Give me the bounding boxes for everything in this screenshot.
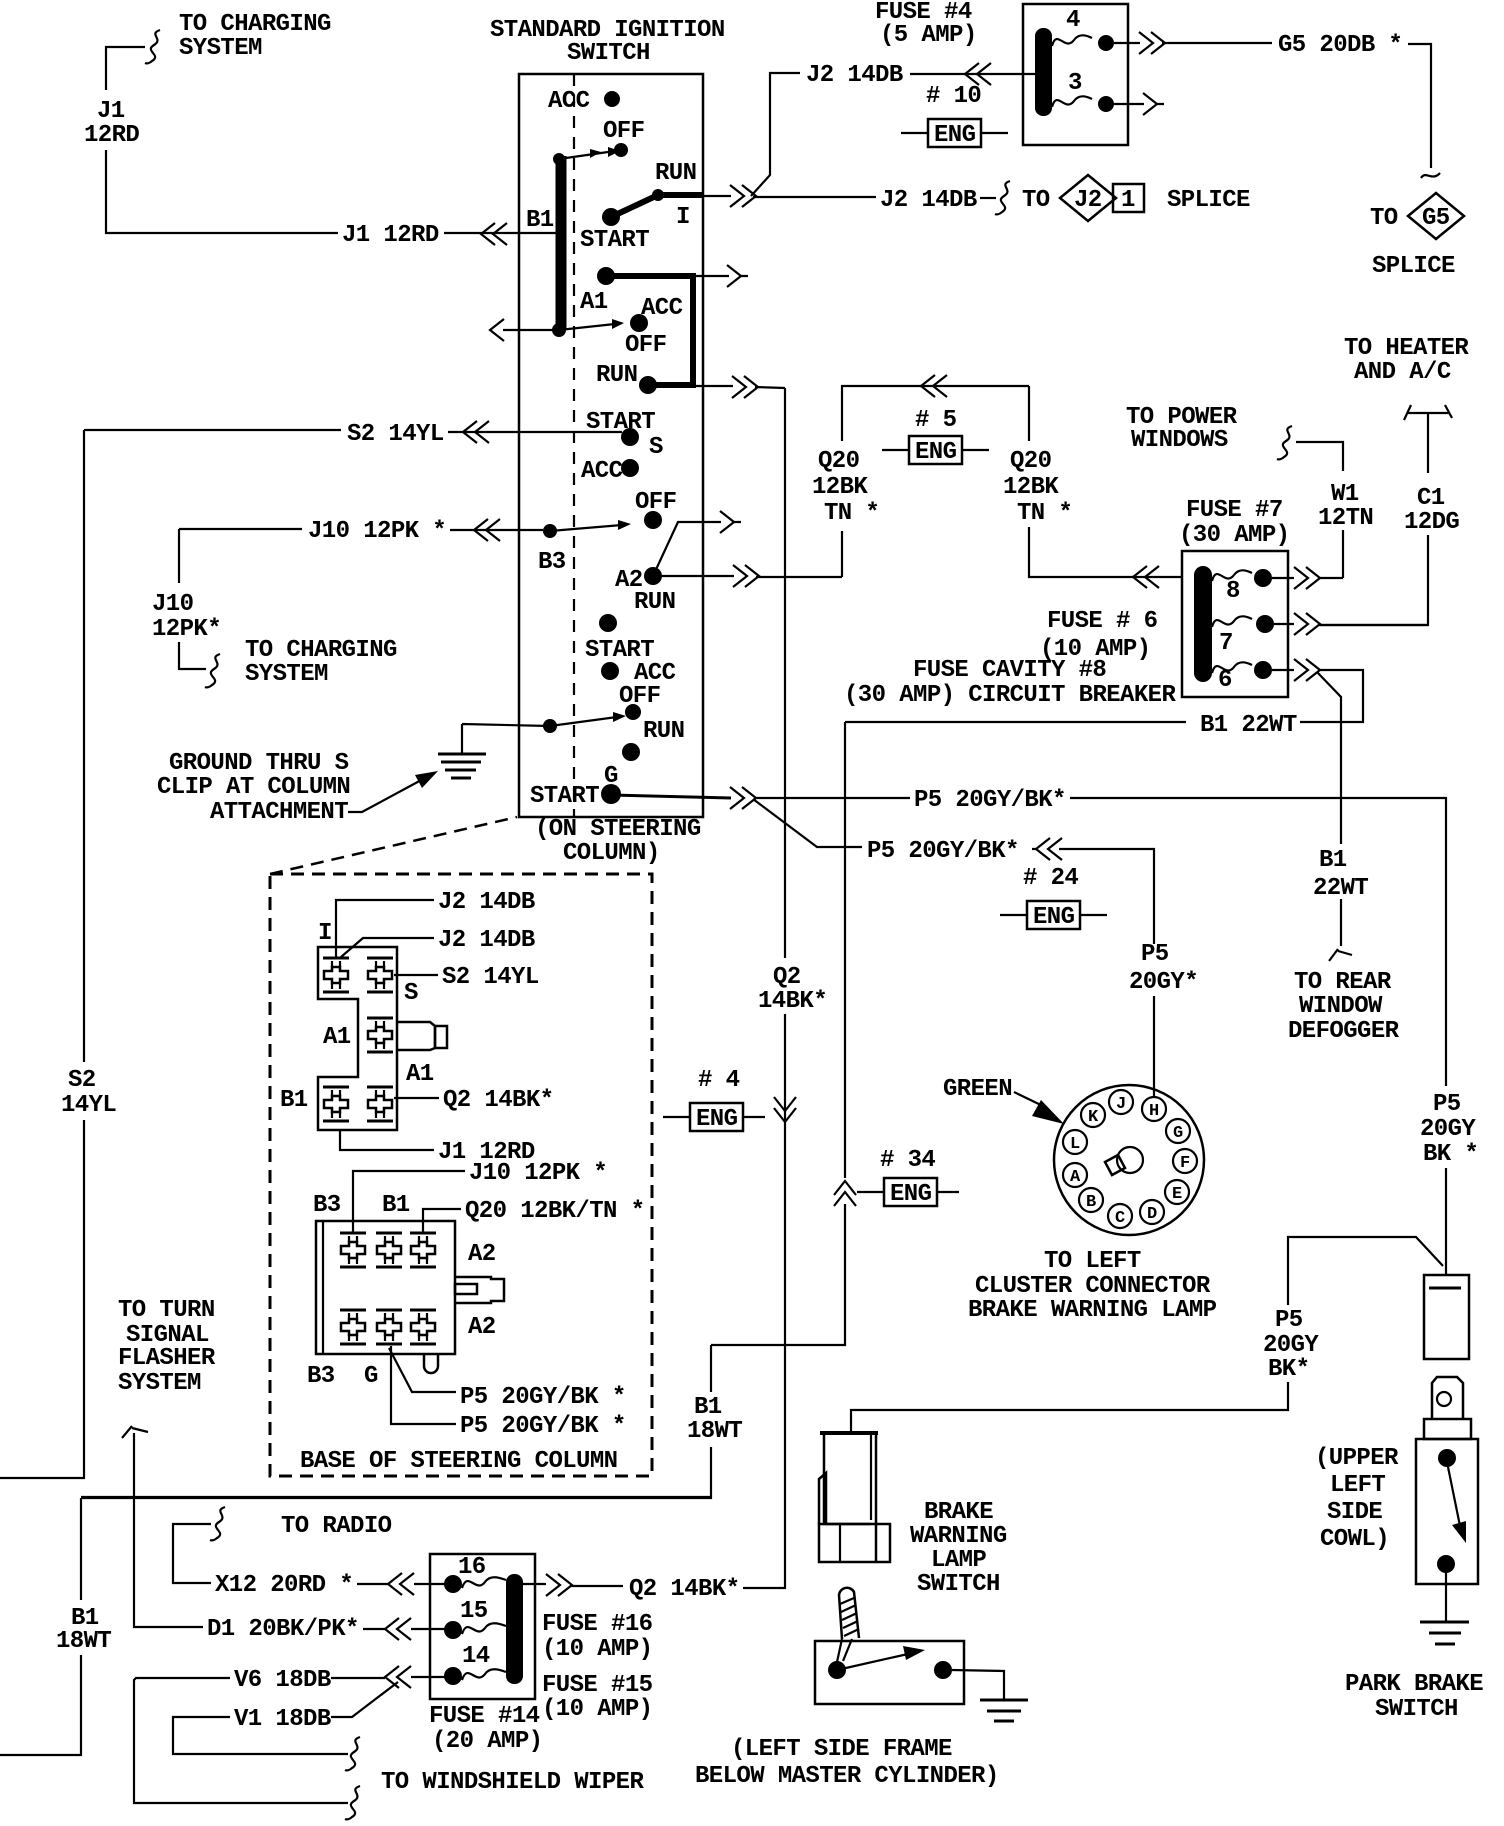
break symbol on B1 wire (834, 1181, 856, 1195)
svg-text:A2: A2 (468, 1314, 496, 1341)
svg-text:G: G (364, 1363, 378, 1390)
svg-text:SYSTEM: SYSTEM (245, 661, 328, 688)
svg-text:J10 12PK *: J10 12PK * (308, 518, 446, 545)
fuse block #14 (fuses 16,15,14) (430, 1554, 535, 1699)
connector side tab (lower) (455, 1277, 504, 1303)
pin B (1079, 1188, 1103, 1212)
brake warning lamp switch body (815, 1641, 964, 1704)
wire Q2 14BK* pigtail (394, 1097, 439, 1099)
svg-text:RUN: RUN (655, 160, 696, 187)
svg-text:Q2 14BK*: Q2 14BK* (443, 1087, 553, 1114)
break symbol defogger (1329, 949, 1352, 961)
wire C1 12DG (1320, 413, 1428, 625)
svg-text:START: START (530, 783, 599, 810)
svg-text:AND A/C: AND A/C (1354, 359, 1451, 386)
svg-text:(30 AMP) CIRCUIT BREAKER: (30 AMP) CIRCUIT BREAKER (844, 682, 1176, 709)
wire J10 12PK* pigtail (353, 1171, 465, 1233)
bus bar B1 (556, 156, 567, 329)
svg-text:(LEFT SIDE FRAME: (LEFT SIDE FRAME (731, 1736, 952, 1763)
svg-text:20GY: 20GY (1263, 1332, 1319, 1359)
svg-text:3: 3 (1068, 70, 1082, 97)
pin A1 (lower) (367, 1087, 393, 1121)
node A1 contact (597, 267, 615, 285)
svg-text:# 5: # 5 (915, 407, 957, 434)
svg-text:12PK*: 12PK* (152, 616, 221, 643)
svg-text:D: D (1147, 1205, 1157, 1224)
svg-text:BASE OF STEERING COLUMN: BASE OF STEERING COLUMN (300, 1448, 617, 1475)
svg-text:Q2: Q2 (773, 964, 801, 991)
svg-text:TO TURN: TO TURN (118, 1297, 215, 1324)
pin A1 (middle) (367, 1018, 393, 1052)
wire Q20 12BK/TN* loop (842, 386, 1182, 577)
svg-text:CLUSTER CONNECTOR: CLUSTER CONNECTOR (975, 1273, 1211, 1300)
park brake switch plug (1432, 1377, 1463, 1419)
wire Q20 12BK/TN* pigtail (423, 1209, 461, 1233)
svg-text:TN *: TN * (824, 500, 879, 527)
svg-text:J2: J2 (1074, 187, 1102, 214)
svg-text:B1: B1 (694, 1394, 722, 1421)
wire J1 12RD pigtail (340, 1131, 434, 1150)
ground (park brake) (1420, 1622, 1469, 1644)
svg-text:GREEN: GREEN (943, 1076, 1012, 1103)
wire ACC output left (single chevron) (503, 329, 556, 331)
svg-text:F: F (1180, 1154, 1190, 1173)
standard ignition switch box (519, 74, 703, 817)
svg-text:START: START (580, 227, 649, 254)
svg-text:W1: W1 (1331, 481, 1359, 508)
svg-text:J10: J10 (152, 591, 194, 618)
svg-text:SPLICE: SPLICE (1372, 253, 1455, 280)
wire P5 20GY/BK* pigtail 2 (391, 1346, 456, 1424)
svg-text:FUSE #7: FUSE #7 (1186, 497, 1283, 524)
svg-text:BK*: BK* (1268, 1356, 1309, 1383)
svg-text:H: H (1149, 1102, 1159, 1121)
park brake switch body (1416, 1439, 1478, 1584)
svg-text:(UPPER: (UPPER (1315, 1445, 1399, 1472)
wire Q2 14BK* output (657, 386, 785, 388)
pin B1 (323, 1087, 349, 1121)
svg-text:J1 12RD: J1 12RD (342, 222, 439, 249)
svg-text:OFF: OFF (619, 683, 660, 710)
svg-text:E: E (1172, 1185, 1182, 1204)
pin F (1173, 1149, 1197, 1173)
wire fuse 6 output to B1 22WT (1272, 670, 1363, 722)
svg-text:14BK*: 14BK* (758, 988, 827, 1015)
svg-text:FUSE # 6: FUSE # 6 (1047, 608, 1158, 635)
svg-text:B3: B3 (313, 1192, 341, 1219)
switch lever ground-OFF (543, 719, 557, 733)
ground (left side frame) (980, 1700, 1028, 1721)
svg-text:B: B (1086, 1193, 1096, 1212)
wire J10 12PK* into ignition switch (179, 528, 302, 530)
svg-text:P5: P5 (1275, 1307, 1303, 1334)
svg-text:BELOW MASTER CYLINDER): BELOW MASTER CYLINDER) (695, 1763, 999, 1790)
switch plunger (hatched) (839, 1588, 859, 1639)
svg-text:18WT: 18WT (687, 1418, 742, 1445)
svg-text:A2: A2 (468, 1241, 496, 1268)
svg-text:12BK: 12BK (812, 474, 868, 501)
svg-text:LAMP: LAMP (931, 1547, 986, 1574)
switch lever B3-OFF (543, 524, 557, 538)
dashed box base of steering column (270, 874, 652, 1476)
svg-text:P5: P5 (1433, 1091, 1461, 1118)
break symbol on Q2 wire (774, 1097, 796, 1111)
svg-text:A1: A1 (323, 1024, 351, 1051)
svg-text:B1: B1 (1319, 847, 1347, 874)
svg-text:A: A (1070, 1168, 1081, 1187)
svg-text:FUSE #14: FUSE #14 (429, 1703, 540, 1730)
pin row1-1 (340, 1233, 366, 1267)
pin A (1063, 1163, 1087, 1187)
pin H (1142, 1097, 1166, 1121)
svg-text:18WT: 18WT (56, 1628, 111, 1655)
svg-text:SPLICE: SPLICE (1167, 187, 1250, 214)
wire Q20 12BK/TN* output (662, 576, 842, 577)
svg-text:TO LEFT: TO LEFT (1044, 1248, 1141, 1275)
wire S2 14YL left vertical (0, 430, 84, 1478)
wire B1 18WT long horizontal (81, 1496, 711, 1498)
svg-text:SWITCH: SWITCH (567, 40, 650, 67)
wire B1 22WT down to B1 18WT (0, 722, 845, 1755)
svg-text:G5 20DB *: G5 20DB * (1278, 32, 1402, 59)
svg-text:12BK: 12BK (1003, 474, 1059, 501)
pin row2-3 (410, 1310, 436, 1344)
svg-text:START: START (586, 409, 655, 436)
wire A1 output (single) (693, 275, 748, 277)
wire D1 20BK/PK* (134, 1433, 203, 1627)
svg-text:SIDE: SIDE (1327, 1499, 1382, 1526)
svg-text:Q20: Q20 (1010, 448, 1052, 475)
svg-text:FLASHER: FLASHER (118, 1345, 216, 1372)
svg-text:P5 20GY/BK *: P5 20GY/BK * (460, 1413, 626, 1440)
svg-text:(5 AMP): (5 AMP) (880, 22, 977, 49)
node contact bottom (1437, 1555, 1455, 1573)
svg-text:S2 14YL: S2 14YL (442, 964, 539, 991)
wire fuse 7 to C1 (1274, 624, 1428, 625)
wire S2 14YL pigtail (394, 974, 438, 976)
wire fuse 8 to W1 (1272, 577, 1343, 579)
svg-text:12TN: 12TN (1318, 505, 1373, 532)
fuse block #7 (fuses 8,7,6) (1182, 551, 1288, 697)
svg-text:WARNING: WARNING (910, 1523, 1007, 1550)
svg-text:P5 20GY/BK*: P5 20GY/BK* (914, 787, 1066, 814)
pin S (367, 958, 393, 992)
wire P5 20GY/BK* output (611, 795, 731, 798)
svg-text:WINDOW: WINDOW (1299, 993, 1383, 1020)
svg-text:7: 7 (1219, 630, 1233, 657)
svg-text:J1: J1 (97, 98, 125, 125)
svg-text:P5 20GY/BK *: P5 20GY/BK * (460, 1384, 626, 1411)
svg-text:COWL): COWL) (1320, 1526, 1389, 1553)
wire J2 14DB pigtail 1 (336, 900, 434, 957)
svg-text:GROUND THRU S: GROUND THRU S (169, 750, 349, 777)
svg-text:# 10: # 10 (926, 83, 981, 110)
svg-text:K: K (1088, 1108, 1099, 1127)
svg-text:FUSE CAVITY #8: FUSE CAVITY #8 (913, 657, 1106, 684)
svg-text:P5: P5 (1141, 941, 1169, 968)
wire X12 20RD* to radio (173, 1524, 211, 1583)
svg-text:J10 12PK *: J10 12PK * (469, 1160, 607, 1187)
wire to ground (1445, 1573, 1447, 1622)
svg-text:A1: A1 (406, 1061, 434, 1088)
svg-text:16: 16 (458, 1554, 486, 1581)
park brake lamp connector (1424, 1275, 1469, 1359)
svg-text:B1 22WT: B1 22WT (1200, 712, 1297, 739)
node contact top (1438, 1449, 1456, 1467)
upper column connector body (318, 947, 397, 1130)
svg-text:J: J (1116, 1095, 1126, 1114)
svg-text:C: C (1115, 1209, 1125, 1228)
svg-text:A1: A1 (580, 289, 608, 316)
switch lever arrow (1447, 1462, 1460, 1526)
svg-text:V6 18DB: V6 18DB (234, 1667, 331, 1694)
wire W1 12TN (1296, 442, 1343, 578)
wire S2 14YL into ignition switch (84, 429, 341, 431)
brake warning lamp connector (820, 1431, 878, 1435)
fuse block #4 (fuses 4 and 3) (1023, 4, 1128, 145)
break symbol heater (1404, 405, 1452, 420)
svg-text:4: 4 (1066, 7, 1080, 34)
svg-text:J2 14DB: J2 14DB (438, 889, 535, 916)
svg-text:# 4: # 4 (698, 1067, 740, 1094)
svg-text:12DG: 12DG (1404, 509, 1459, 536)
svg-text:Q20 12BK/TN *: Q20 12BK/TN * (465, 1198, 644, 1225)
svg-text:TO: TO (1022, 187, 1050, 214)
pin row1-3 (410, 1233, 436, 1267)
svg-text:ACC: ACC (548, 88, 590, 115)
svg-text:SWITCH: SWITCH (917, 1571, 1000, 1598)
arrow to ground (348, 778, 425, 812)
svg-text:8: 8 (1226, 578, 1240, 605)
svg-text:TO HEATER: TO HEATER (1344, 335, 1469, 362)
svg-text:SYSTEM: SYSTEM (179, 35, 262, 62)
svg-text:12RD: 12RD (84, 122, 139, 149)
wire P5 20GY/BK* pigtail 1 (389, 1348, 456, 1392)
pin J (1109, 1090, 1133, 1114)
wire Q2 14BK* output from fuse 16 (523, 1584, 623, 1586)
svg-text:SYSTEM: SYSTEM (118, 1370, 201, 1397)
pin G (1166, 1119, 1190, 1143)
svg-text:OFF: OFF (603, 118, 644, 145)
svg-text:1: 1 (1121, 187, 1135, 214)
pin E (1165, 1180, 1189, 1204)
cluster connector circle (1054, 1085, 1204, 1235)
label TO CHARGING SYSTEM (mid) (205, 654, 220, 687)
svg-text:L: L (1070, 1135, 1080, 1154)
svg-text:Q2 14BK*: Q2 14BK* (629, 1576, 739, 1603)
svg-text:(10 AMP): (10 AMP) (542, 1696, 652, 1723)
wire J10 12PK* down to charging system (179, 529, 206, 669)
svg-text:OFF: OFF (625, 332, 666, 359)
svg-text:TO CHARGING: TO CHARGING (179, 11, 331, 38)
svg-text:(30 AMP): (30 AMP) (1179, 522, 1289, 549)
svg-text:D1 20BK/PK*: D1 20BK/PK* (207, 1616, 359, 1643)
svg-text:RUN: RUN (596, 362, 637, 389)
svg-text:B3: B3 (538, 549, 566, 576)
svg-text:DEFOGGER: DEFOGGER (1288, 1018, 1400, 1045)
node contact right (934, 1661, 952, 1679)
connector bottom tab (424, 1354, 438, 1373)
svg-text:ATTACHMENT: ATTACHMENT (210, 799, 348, 826)
svg-text:X12 20RD *: X12 20RD * (215, 1572, 353, 1599)
key post center (1117, 1147, 1143, 1173)
svg-text:S2: S2 (68, 1067, 96, 1094)
svg-text:TO WINDSHIELD WIPER: TO WINDSHIELD WIPER (381, 1769, 644, 1796)
svg-text:RUN: RUN (643, 718, 684, 745)
svg-text:(20 AMP): (20 AMP) (432, 1728, 542, 1755)
pin I (323, 958, 349, 992)
svg-text:15: 15 (460, 1598, 488, 1625)
svg-text:20GY: 20GY (1420, 1116, 1476, 1143)
svg-text:14: 14 (462, 1643, 490, 1670)
ground (clip at column) (438, 754, 486, 778)
wire J2 14DB branch up to fuse 4 (751, 73, 800, 196)
pin row1-2 (376, 1233, 402, 1267)
pin row2-2 (376, 1310, 402, 1344)
svg-text:14YL: 14YL (61, 1092, 116, 1119)
svg-text:# 34: # 34 (880, 1147, 935, 1174)
svg-text:ACC: ACC (581, 458, 623, 485)
wire fuse 3 output (1114, 103, 1164, 105)
svg-text:B1: B1 (382, 1192, 410, 1219)
svg-text:B1: B1 (280, 1087, 308, 1114)
svg-text:(ON STEERING: (ON STEERING (535, 816, 701, 843)
svg-text:C1: C1 (1417, 485, 1445, 512)
pin row2-1 (340, 1310, 366, 1344)
svg-text:B3: B3 (307, 1363, 335, 1390)
wire B1 22WT branch down to defogger (1317, 672, 1341, 946)
svg-text:S: S (649, 434, 663, 461)
svg-text:ACC: ACC (641, 295, 683, 322)
svg-text:BRAKE WARNING LAMP: BRAKE WARNING LAMP (968, 1297, 1217, 1324)
svg-text:COLUMN): COLUMN) (563, 840, 660, 867)
svg-text:BRAKE: BRAKE (924, 1499, 993, 1526)
wire A2-OFF output (single) (653, 522, 741, 576)
svg-text:FUSE #15: FUSE #15 (542, 1672, 653, 1699)
svg-text:TN *: TN * (1017, 500, 1072, 527)
svg-text:J2 14DB: J2 14DB (438, 927, 535, 954)
svg-text:TO: TO (1370, 205, 1398, 232)
svg-text:FUSE #16: FUSE #16 (542, 1611, 653, 1638)
pin C (1108, 1204, 1132, 1228)
svg-text:RUN: RUN (634, 589, 675, 616)
pin D (1140, 1200, 1164, 1224)
svg-text:20GY*: 20GY* (1129, 969, 1198, 996)
svg-text:# 24: # 24 (1023, 865, 1078, 892)
wire J1 12RD from charging system (145, 30, 160, 63)
wire to ground (952, 1670, 1004, 1700)
connector side tab (397, 1022, 435, 1050)
wire P5 20GY/BK* branch to cluster (753, 799, 862, 847)
svg-text:G5: G5 (1422, 205, 1450, 232)
break symbol power windows (1277, 426, 1292, 459)
wire Q2 14BK* long vertical (743, 388, 785, 1588)
svg-text:Q20: Q20 (818, 448, 860, 475)
svg-text:I: I (676, 204, 690, 231)
pin L (1063, 1130, 1087, 1154)
wire P5 20GY BK* to brake warning lamp switch (851, 1237, 1443, 1432)
pin K (1081, 1103, 1105, 1127)
svg-text:V1 18DB: V1 18DB (234, 1706, 331, 1733)
svg-text:SWITCH: SWITCH (1375, 1696, 1458, 1723)
svg-text:TO REAR: TO REAR (1294, 969, 1392, 996)
svg-text:TO CHARGING: TO CHARGING (245, 637, 397, 664)
switch lever arrow (837, 1654, 908, 1670)
wire J2 14DB pigtail 2 (341, 938, 434, 957)
svg-text:CLIP AT COLUMN: CLIP AT COLUMN (157, 774, 350, 801)
svg-text:I: I (318, 920, 332, 947)
break symbol turn signal (122, 1426, 148, 1438)
svg-text:22WT: 22WT (1313, 875, 1368, 902)
svg-text:PARK BRAKE: PARK BRAKE (1345, 1671, 1483, 1698)
arrow to cluster connector (1014, 1092, 1045, 1107)
wire J2 14DB output (703, 196, 876, 197)
node contact left (828, 1661, 846, 1679)
svg-text:S: S (404, 980, 418, 1007)
svg-text:(10 AMP): (10 AMP) (542, 1636, 652, 1663)
switch lever B1-OFF (553, 153, 565, 165)
svg-text:LEFT: LEFT (1330, 1472, 1385, 1499)
wire G5 20DB* from fuse 4 (1114, 42, 1272, 44)
svg-text:J2 14DB: J2 14DB (806, 62, 903, 89)
svg-text:G: G (1173, 1124, 1183, 1143)
svg-text:TO RADIO: TO RADIO (281, 1513, 392, 1540)
wire to ground clip (462, 724, 550, 754)
svg-text:BK *: BK * (1423, 1141, 1478, 1168)
svg-text:S2 14YL: S2 14YL (347, 421, 444, 448)
svg-text:WINDOWS: WINDOWS (1131, 427, 1228, 454)
svg-text:J2 14DB: J2 14DB (880, 187, 977, 214)
lower column connector body (316, 1221, 455, 1354)
svg-text:B1: B1 (526, 207, 554, 234)
svg-text:P5 20GY/BK*: P5 20GY/BK* (867, 838, 1019, 865)
